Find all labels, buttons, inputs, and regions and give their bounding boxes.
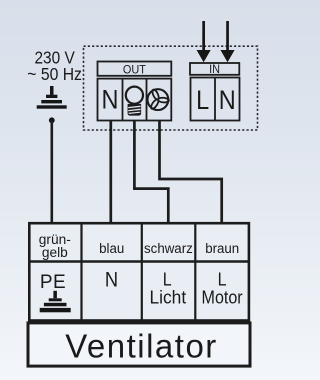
svg-text:IN: IN xyxy=(209,64,220,76)
Ventilator (fan unit) box xyxy=(28,323,250,366)
svg-text:Ventilator: Ventilator xyxy=(65,328,218,365)
mains input arrow L xyxy=(197,21,211,62)
wire N (OUT N to blau) xyxy=(109,121,112,225)
svg-text:PE: PE xyxy=(40,272,66,293)
terminal IN pin N xyxy=(219,85,236,115)
label braun wire colour xyxy=(205,241,239,256)
terminal OUT fan pin (fan icon) xyxy=(148,89,170,110)
terminal block header OUT xyxy=(98,62,172,77)
svg-text:Motor: Motor xyxy=(202,286,243,307)
terminal PE label xyxy=(40,272,66,293)
svg-text:~ 50 Hz: ~ 50 Hz xyxy=(27,64,82,84)
terminal IN pin L xyxy=(196,85,209,115)
terminal block IN cells outline xyxy=(191,78,240,121)
junction node (PE tap) xyxy=(49,117,55,123)
svg-text:schwarz: schwarz xyxy=(144,241,193,256)
svg-text:blau: blau xyxy=(99,241,124,256)
terminal OUT lamp pin (bulb icon) xyxy=(126,87,143,116)
svg-text:OUT: OUT xyxy=(123,64,146,76)
svg-text:Licht: Licht xyxy=(149,287,186,308)
svg-text:gelb: gelb xyxy=(42,244,68,260)
terminal block OUT cells outline xyxy=(98,79,172,121)
terminal L Motor label xyxy=(202,268,243,307)
wire fan (OUT fan to braun) xyxy=(160,121,222,225)
svg-text:N: N xyxy=(105,268,118,292)
svg-text:braun: braun xyxy=(205,241,239,256)
label 230 V ~ 50 Hz (mains supply) xyxy=(27,49,82,84)
PE earth symbol (terminal) xyxy=(40,291,71,313)
supply earth symbol xyxy=(37,86,67,109)
terminal L Licht label xyxy=(149,268,186,307)
wire PE (supply earth to grün-gelb) xyxy=(50,120,53,224)
wire lamp (OUT bulb to schwarz) xyxy=(134,121,168,225)
svg-text:N: N xyxy=(219,85,236,115)
label blau wire colour xyxy=(99,241,124,256)
svg-text:N: N xyxy=(102,85,119,115)
terminal N label xyxy=(105,268,118,292)
svg-text:L: L xyxy=(196,85,209,115)
terminal block header IN xyxy=(190,63,239,76)
terminal strip outline (4 cells, 2 rows) xyxy=(28,223,250,321)
label grün-gelb wire colour xyxy=(39,231,71,260)
terminal OUT pin N xyxy=(102,85,119,115)
mains input arrow N xyxy=(221,21,235,62)
dashed enclosure (switch unit boundary) xyxy=(84,46,258,130)
label schwarz wire colour xyxy=(144,241,193,256)
